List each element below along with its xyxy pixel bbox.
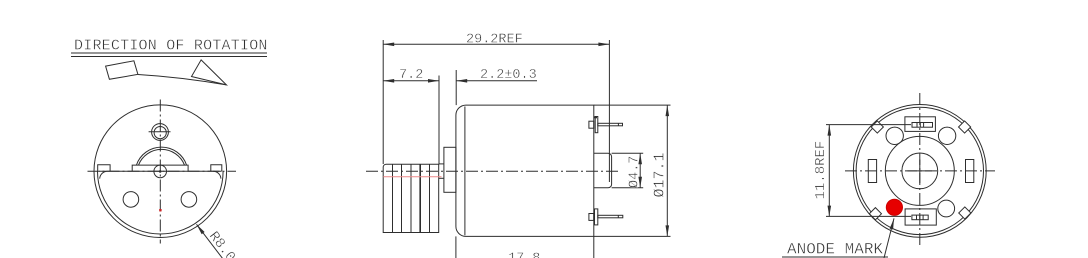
svg-text:11.8REF: 11.8REF: [813, 141, 829, 200]
svg-text:17.8: 17.8: [508, 252, 540, 258]
svg-text:2.2±0.3: 2.2±0.3: [480, 68, 537, 83]
svg-text:Ø17.1: Ø17.1: [652, 152, 669, 197]
svg-text:ANODE MARK: ANODE MARK: [787, 241, 883, 258]
svg-text:7.2: 7.2: [399, 68, 423, 83]
svg-text:DIRECTION OF ROTATION: DIRECTION OF ROTATION: [74, 38, 268, 55]
svg-text:29.2REF: 29.2REF: [466, 33, 523, 48]
svg-text:R8.0: R8.0: [205, 229, 238, 258]
svg-text:Ø4.7: Ø4.7: [628, 156, 643, 188]
